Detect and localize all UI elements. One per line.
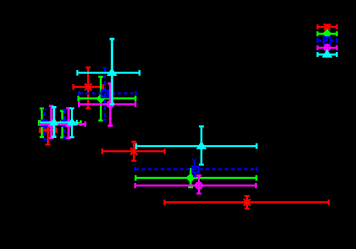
red point R2 error bars [102, 142, 164, 161]
green diamond marker G1 [97, 95, 104, 102]
green diamond marker GA [39, 120, 45, 126]
legend red entry [318, 24, 337, 30]
magenta circle marker M2 [196, 182, 202, 188]
red point RA error bars [40, 126, 56, 144]
legend cyan entry [318, 51, 337, 58]
cyan triangle marker CB [69, 119, 75, 124]
red point R1 error bars [73, 68, 103, 109]
red point R3 error bars [165, 196, 329, 209]
blue square markers [42, 91, 198, 173]
green point G2 error bars [136, 168, 257, 187]
magenta point M1 error bars [79, 84, 135, 126]
cyan triangle marker C2 [198, 143, 205, 149]
green series [39, 77, 256, 187]
cyan triangle marker C1 [108, 69, 115, 75]
magenta circle marker MB [66, 121, 71, 126]
cyan point C1 error bars [77, 39, 139, 104]
legend green entry [318, 30, 337, 37]
green point G1 error bars [78, 77, 135, 121]
green point GB error bars [55, 111, 81, 138]
magenta point MB error bars [55, 108, 85, 138]
green point GA error bars [39, 109, 48, 138]
magenta circle marker M1 [107, 101, 113, 107]
red marker X at R3 [244, 199, 251, 206]
magenta series [39, 84, 256, 194]
blue square marker B2 [192, 166, 198, 172]
blue point BA error bars [39, 109, 50, 140]
legend blue entry [318, 37, 337, 44]
blue point BB error bars [55, 110, 77, 139]
red series [39, 68, 329, 209]
green diamond marker G2 [187, 175, 194, 182]
cyan triangle marker CA [51, 119, 57, 124]
red marker X at R1 [85, 84, 92, 91]
green diamond marker GB [60, 120, 66, 126]
blue series (dashed) [39, 68, 257, 176]
cyan point CA error bars [40, 107, 58, 137]
legend magenta entry [318, 45, 337, 51]
magenta circle marker MA [49, 121, 54, 126]
legend [318, 24, 337, 58]
cyan point C2 error bars [136, 126, 257, 164]
cyan series [40, 39, 257, 165]
cyan point CB error bars [55, 108, 77, 137]
blue square marker BB [62, 121, 68, 127]
red marker X at RA [43, 127, 49, 133]
blue point B2 error bars [135, 159, 256, 176]
red point R0 hidden band bar [39, 120, 56, 125]
blue square marker B1 [102, 91, 109, 98]
magenta point M2 error bars [135, 176, 256, 194]
blue square marker BA [42, 121, 48, 127]
magenta point MA error bars [39, 106, 54, 138]
blue point B1 error bars [79, 68, 136, 120]
red marker X at R2 [130, 148, 137, 155]
